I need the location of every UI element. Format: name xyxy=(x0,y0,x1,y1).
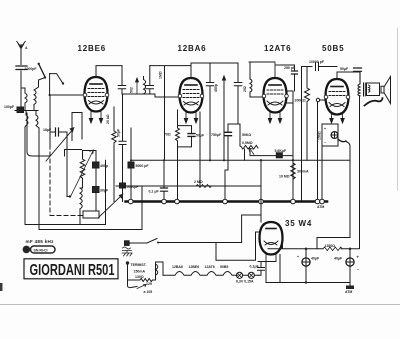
svg-text:10 MΩ: 10 MΩ xyxy=(279,175,290,179)
output transformer secondary xyxy=(367,83,380,96)
cathode bypass cap 50uF xyxy=(178,126,206,147)
electrolytic 40uF A xyxy=(297,249,320,282)
svg-text:1MΩ: 1MΩ xyxy=(159,71,163,79)
mains switch xyxy=(125,239,242,246)
wire AVC return xyxy=(105,160,107,224)
grid pin loop V4 xyxy=(320,99,327,101)
heater tie to V5 xyxy=(258,261,276,263)
potentiometer 0.5Mohm xyxy=(240,141,258,155)
wire antenna to coil line xyxy=(15,71,38,111)
ground tag xyxy=(345,282,354,294)
IF2 coil xyxy=(250,62,252,97)
svg-text:50μF: 50μF xyxy=(196,134,205,138)
resistor 20k vertical xyxy=(106,107,116,202)
wire V2 center down xyxy=(199,112,201,186)
svg-text:50B5: 50B5 xyxy=(322,44,344,53)
wire switch riser xyxy=(242,215,261,243)
svg-text:12BA6: 12BA6 xyxy=(172,265,183,269)
AVC arrow xyxy=(223,76,226,160)
gang link solid part xyxy=(49,95,51,145)
svg-text:252: 252 xyxy=(243,86,247,92)
svg-text:200KΩ: 200KΩ xyxy=(295,99,306,103)
diode load box xyxy=(285,91,293,103)
bottom return bus xyxy=(266,255,350,283)
capacitor 50uF xyxy=(340,67,362,71)
bus drop 164 xyxy=(163,160,165,186)
capacitor 250pF xyxy=(284,65,298,91)
svg-text:125: 125 xyxy=(146,282,152,286)
ant gang plates xyxy=(65,113,83,157)
chassis bus thick xyxy=(126,200,327,203)
filter resistor 1350ohm xyxy=(323,244,342,251)
IF1 bottom tie xyxy=(122,94,155,97)
capacitor 18pF xyxy=(43,128,67,136)
output transformer primary xyxy=(358,72,360,96)
bus terminal circles xyxy=(128,199,324,204)
capacitor 0.1uF at bus xyxy=(149,186,168,199)
svg-text:40μF: 40μF xyxy=(334,257,343,261)
output transformer core xyxy=(364,83,366,96)
ballast coil xyxy=(156,262,164,275)
svg-text:150Ω: 150Ω xyxy=(318,131,322,140)
wire plate V1 to IF1 xyxy=(96,66,122,77)
capacitor 5000pF blob xyxy=(120,183,140,202)
svg-text:12BE6: 12BE6 xyxy=(78,44,106,53)
coil L2b band coil xyxy=(36,111,39,129)
tube V4 50B5 xyxy=(326,79,349,115)
IF1 coil xyxy=(144,77,146,94)
tube V3 12AT6 xyxy=(264,78,287,113)
capacitor blob 5000pF mid xyxy=(128,128,149,199)
svg-text:+: + xyxy=(324,127,326,131)
svg-text:18pF: 18pF xyxy=(43,128,52,132)
cap 450p xyxy=(206,63,214,160)
wire box drops xyxy=(318,102,323,199)
tuning gang arrow 2 xyxy=(71,150,93,196)
wire secondary down xyxy=(359,96,361,249)
speaker xyxy=(365,77,391,106)
screen feed resistor vertical xyxy=(305,67,310,161)
heater chain xyxy=(163,265,237,275)
svg-text:12AT6: 12AT6 xyxy=(264,44,291,53)
ground cap below switch xyxy=(122,247,132,256)
wire coil return xyxy=(27,113,50,156)
svg-text:1000pF: 1000pF xyxy=(25,67,38,71)
svg-text:ATM: ATM xyxy=(317,205,324,209)
capacitor 10000pF xyxy=(302,60,338,71)
wire left rail xyxy=(25,127,106,225)
wire V5 left feed xyxy=(216,215,261,260)
svg-text:A: A xyxy=(25,46,28,50)
svg-text:300mA: 300mA xyxy=(297,170,309,174)
wire pot left drop xyxy=(244,149,246,160)
svg-text:6,3V 0,15A: 6,3V 0,15A xyxy=(236,280,254,284)
svg-text:12BE6: 12BE6 xyxy=(189,265,200,269)
svg-text:12BA6: 12BA6 xyxy=(178,44,207,53)
svg-text:50KΩ: 50KΩ xyxy=(242,133,251,137)
tube V1 internals xyxy=(83,84,109,123)
wire osc top tie xyxy=(83,150,97,152)
svg-text:GIORDANI R501: GIORDANI R501 xyxy=(30,262,115,279)
scan edge right xyxy=(397,28,399,190)
electrolytic 40uF B xyxy=(334,249,360,282)
svg-text:40μF: 40μF xyxy=(311,257,320,261)
tube V2 12BA6 xyxy=(180,78,203,113)
svg-text:150mA: 150mA xyxy=(134,270,146,274)
junction dots AF line xyxy=(130,159,294,161)
IF2 primary cap xyxy=(234,63,242,124)
svg-text:ATM: ATM xyxy=(345,290,352,294)
resistor 10Mohm inline xyxy=(279,161,295,182)
capacitor 1000pF xyxy=(16,66,37,71)
wire 18pF chain down xyxy=(67,132,70,197)
scan artifact line xyxy=(0,304,400,306)
resistor 1Mohm vertical xyxy=(159,66,165,160)
capacitor 100pF xyxy=(4,105,24,113)
svg-text:mF 485 kHz: mF 485 kHz xyxy=(26,239,55,244)
svg-text:−: − xyxy=(324,141,326,145)
svg-text:12AT6: 12AT6 xyxy=(205,265,215,269)
thermistor network xyxy=(126,261,156,287)
oscillator coil L3 xyxy=(80,188,83,225)
IF1 primary cap xyxy=(118,66,126,94)
wire plate V2 to IF2 xyxy=(191,63,238,78)
resistor 2Mohm xyxy=(194,180,212,188)
wire pot tap down xyxy=(260,160,262,222)
svg-text:490p: 490p xyxy=(100,164,108,168)
tube V3 internals xyxy=(262,85,288,123)
svg-text:20 kΩ: 20 kΩ xyxy=(106,114,110,124)
model box GIORDANI R501 xyxy=(24,259,118,279)
trimmer box xyxy=(83,211,99,218)
svg-text:502: 502 xyxy=(130,87,134,93)
wire xyxy=(20,71,22,109)
coil L1 antenna primary xyxy=(21,88,27,111)
tube V1 12BE6 xyxy=(85,77,108,112)
tube V2 internals xyxy=(178,85,204,123)
wire IF1 to V2 xyxy=(150,66,191,97)
svg-text:a 105: a 105 xyxy=(144,290,153,294)
long vertical B- xyxy=(301,67,303,202)
volume rails xyxy=(225,124,240,199)
wire plate V3 up xyxy=(249,62,295,78)
AF line y160 xyxy=(131,159,350,161)
svg-text:100pF: 100pF xyxy=(4,105,15,109)
svg-text:50μF: 50μF xyxy=(340,67,349,71)
svg-text:−: − xyxy=(357,267,360,272)
coil L1b band coil xyxy=(25,111,28,128)
tube V5 internals xyxy=(264,229,278,262)
svg-text:TERMIST.: TERMIST. xyxy=(131,263,147,267)
tube V4 internals xyxy=(324,87,350,124)
capacitor 50uF cathode xyxy=(117,94,127,183)
svg-text:0,5MΩ: 0,5MΩ xyxy=(242,141,253,145)
grid coupling cap 5,6KpF xyxy=(250,149,293,158)
IF1 tuning arrow xyxy=(136,78,139,94)
svg-text:50B5: 50B5 xyxy=(220,265,228,269)
junction dots B+ xyxy=(305,248,352,251)
resistor R osc vertical xyxy=(80,151,85,189)
wire plate V4 xyxy=(337,72,360,79)
svg-text:750μF: 750μF xyxy=(211,133,222,137)
cathode resistor 70ohm xyxy=(164,110,180,199)
capacitor 30pF xyxy=(93,187,110,193)
svg-text:35 W4: 35 W4 xyxy=(285,219,312,228)
dial lamps xyxy=(236,272,258,283)
scan mark bottom left xyxy=(0,283,3,291)
wire IF2 to V3 xyxy=(250,96,264,98)
svg-text:F: F xyxy=(25,247,28,253)
svg-text:5000 pF: 5000 pF xyxy=(136,164,150,168)
wire grid feed V1 xyxy=(50,94,85,96)
wire osc vertical xyxy=(95,151,97,212)
svg-text:+: + xyxy=(297,255,299,259)
wire antenna down xyxy=(20,52,22,65)
band switch arm xyxy=(38,63,65,97)
maker badge xyxy=(23,246,55,254)
wire primary B+ feed xyxy=(317,142,350,249)
wire rectifier output xyxy=(268,238,359,249)
svg-text:70Ω: 70Ω xyxy=(164,133,171,137)
wire V3 box to bus xyxy=(292,103,294,199)
svg-text:+: + xyxy=(357,255,360,260)
tuning gang arrow 1 xyxy=(46,127,75,161)
svg-text:30pF: 30pF xyxy=(100,189,109,193)
junction dot osc xyxy=(69,195,71,197)
line y186 xyxy=(116,185,261,187)
pointer diagonal gang2 xyxy=(98,194,124,219)
heater end cap 0,1uF xyxy=(250,262,265,276)
thermistor tap 125 xyxy=(137,282,152,294)
svg-text:130Ω: 130Ω xyxy=(135,275,144,279)
gang dashed link xyxy=(50,145,83,216)
junction dot bottom bus xyxy=(305,281,307,283)
svg-text:2 MΩ: 2 MΩ xyxy=(194,180,203,184)
svg-text:10000 pF: 10000 pF xyxy=(309,60,325,64)
capacitor 750uF xyxy=(211,132,232,137)
cathode box 50B5 xyxy=(322,124,346,146)
IF1 secondary cap xyxy=(146,66,154,94)
svg-text:50μF: 50μF xyxy=(117,128,121,137)
svg-text:SN RI-CI: SN RI-CI xyxy=(34,248,48,252)
tube V5 35W4 xyxy=(260,222,283,255)
antenna xyxy=(17,42,28,53)
capacitor 490pF xyxy=(93,162,108,168)
wire second rail xyxy=(39,128,142,230)
coil L2 antenna secondary xyxy=(34,78,45,111)
svg-text:450p: 450p xyxy=(214,84,218,92)
svg-text:0,1 μF: 0,1 μF xyxy=(149,190,160,194)
